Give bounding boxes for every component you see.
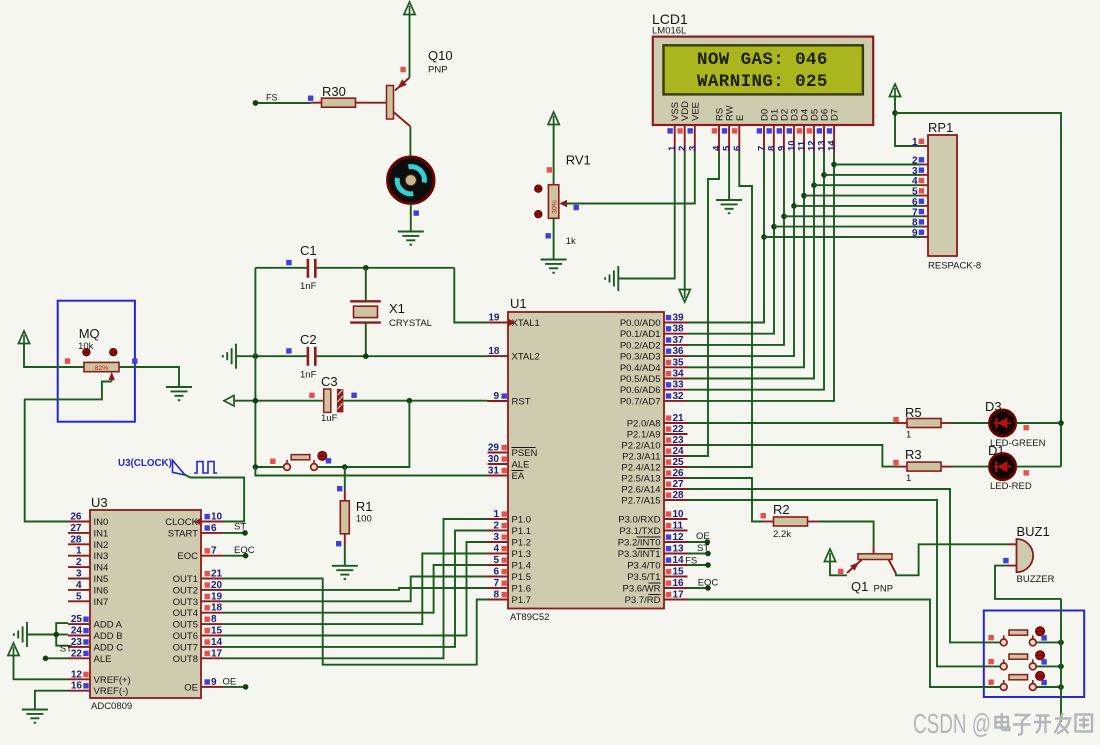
svg-text:OUT1: OUT1 — [173, 574, 198, 585]
svg-text:2: 2 — [493, 521, 499, 532]
svg-text:NOW GAS: 046: NOW GAS: 046 — [697, 50, 828, 70]
node D6/RP1 junction — [821, 172, 827, 178]
U1 pin 29 PSEN — [488, 452, 509, 454]
svg-text:1nF: 1nF — [300, 370, 317, 381]
svg-text:OE: OE — [696, 531, 710, 542]
wire +V rail to LED column — [895, 113, 1061, 467]
LCD1 screen — [664, 45, 863, 94]
wire U1 P2.7 to button 2 — [688, 500, 1001, 666]
svg-text:6: 6 — [732, 146, 743, 151]
wire — [119, 367, 179, 387]
wire Q1 collector to buzzer — [896, 544, 1008, 575]
node button 2 rail junction — [1058, 664, 1064, 670]
wire C3 to RST — [343, 400, 487, 402]
push button 2 in box — [1000, 651, 1044, 670]
node RP1 rail junction — [892, 110, 898, 116]
wire U1 P3.7 to button 3 — [688, 600, 1001, 688]
wire R1 to ground — [344, 545, 346, 566]
node button row left junction — [253, 464, 259, 470]
wire +V to MQ pot left — [24, 344, 84, 367]
svg-text:16: 16 — [673, 578, 685, 589]
svg-text:ADD B: ADD B — [94, 631, 123, 642]
svg-text:14: 14 — [827, 140, 838, 151]
svg-text:D3: D3 — [985, 399, 1002, 414]
svg-text:D7: D7 — [830, 109, 841, 121]
U1 pin 11 P3.1/TXD — [664, 530, 688, 532]
node FS — [705, 562, 711, 568]
svg-text:15: 15 — [673, 567, 685, 578]
svg-text:P1.4: P1.4 — [512, 561, 532, 572]
resistor pack RP1 RESPACK-8 body — [928, 135, 957, 256]
ground below R1 — [332, 566, 358, 579]
wire ADD B stub — [56, 634, 68, 636]
MQ sensor enclosure (blue box) — [58, 301, 135, 422]
svg-text:EOC: EOC — [177, 551, 198, 562]
U3 pin 6 START — [201, 532, 223, 534]
U1 pin 17 P3.7/RD — [664, 599, 688, 601]
wire X1 top — [365, 268, 367, 302]
wire motor to ground — [410, 204, 412, 232]
svg-text:9: 9 — [493, 391, 499, 402]
svg-text:IN3: IN3 — [94, 551, 109, 562]
svg-text:OUT4: OUT4 — [173, 608, 198, 619]
svg-text:25: 25 — [71, 614, 83, 625]
op-amp U1 (AT89C52 microcontroller body) — [508, 312, 664, 609]
LED D3 (green) — [989, 410, 1015, 436]
wire LCD VDD down — [684, 152, 686, 289]
wire OUT3-P1.5 — [223, 577, 488, 602]
svg-text:OUT7: OUT7 — [173, 642, 198, 653]
wire LCD D3 to U1 P0.3 — [688, 152, 795, 356]
svg-text:OUT2: OUT2 — [173, 585, 198, 596]
svg-text:LM016L: LM016L — [652, 26, 686, 37]
svg-text:PNP: PNP — [874, 584, 894, 595]
transistor Q1 (PNP) — [847, 546, 896, 574]
U1 pin 7 P1.6 — [488, 587, 509, 589]
wire D4 to RP1 — [804, 195, 921, 197]
wire button 1 to rail — [1036, 641, 1061, 643]
power arrow below LCD VDD — [679, 290, 690, 303]
U3 pin 25 ADD A — [68, 623, 90, 625]
capacitor C2 — [308, 347, 315, 366]
wire LCD VSS to ground — [618, 152, 674, 279]
svg-text:OE: OE — [223, 677, 237, 688]
svg-text:XTAL2: XTAL2 — [512, 352, 540, 363]
RP1 pin 8 — [921, 226, 928, 228]
svg-text:19: 19 — [488, 313, 500, 324]
U1 pin 30 ALE — [488, 463, 509, 465]
potentiometer RV1 — [535, 185, 559, 219]
node button 1 rail junction — [1058, 640, 1064, 646]
buzzer BUZ1 — [1008, 539, 1033, 572]
U3 pin 14 OUT7 — [201, 646, 223, 648]
U3 pin 19 OUT3 — [201, 600, 223, 602]
RP1 pin 3 — [921, 174, 928, 176]
svg-text:22: 22 — [71, 648, 83, 659]
LCD1 pin 2 VDD — [684, 125, 686, 152]
wire P3.3 stub ST — [688, 553, 709, 555]
svg-text:C3: C3 — [321, 374, 338, 389]
U3 pin 8 OUT5 — [201, 623, 223, 625]
svg-text:32: 32 — [673, 391, 685, 402]
svg-text:CLOCK: CLOCK — [165, 517, 198, 528]
svg-text:ADD A: ADD A — [94, 620, 123, 631]
RP1 pin 7 — [921, 215, 928, 217]
wire — [565, 152, 695, 204]
node FS (left) — [253, 100, 259, 106]
power +V — [548, 112, 559, 125]
U1 pin 27 P2.6/A14 — [664, 488, 688, 490]
wire ALE stub — [46, 657, 69, 659]
svg-text:U1: U1 — [510, 296, 527, 311]
svg-text:11: 11 — [673, 521, 684, 532]
U1 pin 2 P1.1 — [488, 530, 509, 532]
svg-text:31: 31 — [488, 466, 500, 477]
svg-text:P3.0/RXD: P3.0/RXD — [618, 515, 660, 526]
svg-text:1: 1 — [906, 430, 911, 441]
U1 pin 1 P1.0 — [488, 518, 509, 520]
node D1/RP1 junction — [771, 224, 777, 230]
svg-text:BUZ1: BUZ1 — [1017, 524, 1050, 539]
U3 pin 18 OUT4 — [201, 612, 223, 614]
wire U1 P2.0 to R5 — [688, 422, 897, 424]
U1 pin 6 P1.5 — [488, 576, 509, 578]
LCD1 LM016L display body — [653, 37, 873, 125]
svg-text:BUZZER: BUZZER — [1017, 574, 1055, 585]
svg-text:CRYSTAL: CRYSTAL — [389, 318, 432, 329]
wire — [1060, 599, 1062, 722]
svg-text:38: 38 — [673, 324, 685, 335]
wire D5 to RP1 — [814, 184, 921, 186]
wire arrow to C3 — [234, 400, 323, 402]
wire ground to C2 — [236, 355, 307, 357]
svg-text:21: 21 — [211, 569, 223, 580]
svg-text:17: 17 — [211, 648, 223, 659]
wire D2 to RP1 — [784, 215, 921, 217]
U1 pin 16 P3.6/WR — [664, 587, 688, 589]
RP1 pin 2 — [921, 164, 928, 166]
node OE — [705, 539, 711, 545]
U1 pin 25 P2.4/A12 — [664, 466, 688, 468]
svg-text:3: 3 — [687, 146, 698, 151]
wire D6 to RP1 — [824, 174, 921, 176]
svg-text:P3.5/T1: P3.5/T1 — [627, 572, 660, 583]
svg-text:24: 24 — [673, 446, 685, 457]
resistor — [311, 98, 367, 107]
wire P3.2 stub OE — [688, 541, 708, 543]
wire VREF+ to power — [14, 656, 69, 679]
svg-text:P0.3/AD3: P0.3/AD3 — [620, 352, 661, 363]
node X1 bottom junction — [363, 353, 369, 359]
U1 pin 12 P3.2/INT0 — [664, 541, 688, 543]
U3 pin 4 IN6 — [68, 589, 90, 591]
wire D3 to rail — [1016, 422, 1061, 424]
ground — [14, 622, 27, 647]
wire EOC stub — [223, 555, 246, 557]
svg-text:1: 1 — [76, 546, 82, 557]
node RST junction — [407, 398, 413, 404]
button enclosure (blue box) — [984, 611, 1084, 698]
svg-text:R30: R30 — [322, 84, 346, 99]
wire clock to U3 CLOCK pin — [185, 475, 245, 522]
svg-text:26: 26 — [673, 468, 685, 479]
U1 pin 21 P2.0/A8 — [664, 422, 688, 424]
node ADD bracket junction — [53, 632, 59, 638]
node D7/RP1 junction — [831, 162, 837, 168]
wire ground to ADD B — [27, 634, 56, 636]
svg-text:P0.6/AD6: P0.6/AD6 — [620, 385, 661, 396]
ground left of C2 — [223, 344, 236, 369]
U1 pin 19 XTAL1 — [488, 322, 509, 324]
svg-text:LED-RED: LED-RED — [990, 481, 1032, 492]
svg-text:P0.4/AD4: P0.4/AD4 — [620, 363, 661, 374]
resistor R1 (100, vertical) — [340, 490, 349, 545]
wire D1 to RP1 — [774, 226, 921, 228]
svg-text:1nF: 1nF — [300, 281, 317, 292]
svg-text:C2: C2 — [300, 332, 317, 347]
node D5/RP1 junction — [811, 182, 817, 188]
node button 3 rail junction — [1058, 684, 1064, 690]
svg-text:13: 13 — [673, 544, 685, 555]
svg-text:EOC: EOC — [234, 545, 255, 556]
wire LCD D7 to U1 P0.7 — [688, 152, 835, 401]
net arrow (left) on RST row — [224, 395, 234, 406]
wire OUT4-P1.4 — [223, 565, 488, 613]
svg-text:P2.1/A9: P2.1/A9 — [627, 430, 661, 441]
U3 pin 24 ADD B — [68, 635, 90, 637]
U3 pin 3 IN5 — [68, 578, 90, 580]
node ST — [705, 551, 711, 557]
svg-text:P3.6/WR: P3.6/WR — [622, 584, 660, 595]
U3 pin 23 ADD C — [68, 646, 90, 648]
svg-text:P1.7: P1.7 — [512, 595, 532, 606]
svg-text:18: 18 — [488, 346, 500, 357]
svg-text:ST: ST — [697, 543, 709, 554]
wire OUT5-P1.3 — [223, 554, 488, 625]
wire LCD E to U1 P2.4 — [688, 152, 753, 467]
svg-text:6: 6 — [493, 567, 499, 578]
U1 pin 34 P0.5/AD5 — [664, 378, 688, 380]
svg-text:24: 24 — [71, 626, 83, 637]
svg-text:P3.2/INT0: P3.2/INT0 — [618, 538, 661, 549]
wire LCD D4 to U1 P0.4 — [688, 152, 805, 367]
node C3 row junction — [253, 398, 259, 404]
node D3/RP1 junction — [791, 203, 797, 209]
capacitor C3 (1uF polarized) — [324, 389, 344, 412]
LCD1 pin 1 VSS — [674, 125, 676, 152]
U1 pin 8 P1.7 — [488, 599, 509, 601]
svg-text:R2: R2 — [773, 502, 790, 517]
wire R5 to D3 — [952, 422, 989, 424]
wire OUT2-P1.6 — [223, 588, 488, 590]
LCD1 pin 11 D4 — [803, 125, 805, 152]
U1 pin 13 P3.3/INT1 — [664, 553, 688, 555]
U1 pin 37 P0.2/AD2 — [664, 344, 688, 346]
svg-text:IN4: IN4 — [94, 563, 109, 574]
push button 1 in box — [1000, 627, 1044, 646]
U1 pin 35 P0.4/AD4 — [664, 366, 688, 368]
svg-text:WARNING: 025: WARNING: 025 — [697, 72, 828, 92]
node D4/RP1 junction — [801, 193, 807, 199]
power +V — [18, 331, 29, 344]
svg-text:5: 5 — [76, 591, 82, 602]
RP1 pin 4 — [921, 184, 928, 186]
wire OUT8-P1.0 — [223, 519, 488, 658]
resistor — [896, 462, 952, 471]
wire R2 to Q1 base — [819, 522, 874, 547]
U3 pin 10 CLOCK — [201, 521, 223, 523]
wire OUT6-P1.2 — [223, 542, 488, 636]
wire X1 bottom — [365, 323, 367, 357]
LCD1 pin 3 VEE — [694, 125, 696, 152]
svg-text:X1: X1 — [389, 301, 405, 316]
svg-text:P1.0: P1.0 — [512, 515, 532, 526]
RV1 wiper arrow — [559, 200, 567, 208]
svg-text:P2.7/A15: P2.7/A15 — [621, 496, 660, 507]
svg-text:12: 12 — [71, 669, 83, 680]
svg-text:1k: 1k — [566, 236, 576, 247]
U1 pin 39 P0.0/AD0 — [664, 322, 688, 324]
ground below RV1 — [541, 260, 567, 273]
svg-text:17: 17 — [673, 590, 685, 601]
svg-text:R1: R1 — [356, 499, 373, 514]
svg-text:25: 25 — [673, 457, 685, 468]
svg-text:26: 26 — [70, 512, 82, 523]
svg-text:18: 18 — [211, 603, 223, 614]
U1 pin 5 P1.4 — [488, 564, 509, 566]
LCD1 pin 7 D0 — [763, 125, 765, 152]
U1 pin 38 P0.1/AD1 — [664, 333, 688, 335]
svg-text:RP1: RP1 — [928, 120, 953, 135]
svg-text:U3: U3 — [91, 495, 108, 510]
U1 pin 18 XTAL2 — [488, 355, 509, 357]
svg-text:12: 12 — [673, 532, 685, 543]
svg-text:7: 7 — [211, 546, 217, 557]
svg-text:7: 7 — [493, 578, 499, 589]
wire U1 P2.6 to button 1 — [688, 489, 1001, 642]
svg-text:U3(CLOCK): U3(CLOCK) — [118, 458, 172, 469]
svg-text:28: 28 — [70, 534, 82, 545]
svg-text:27: 27 — [673, 479, 685, 490]
RP1 pin 5 — [921, 195, 928, 197]
svg-text:34: 34 — [673, 369, 685, 380]
wire START stub — [223, 532, 245, 534]
svg-text:10: 10 — [211, 512, 223, 523]
U3 pin 22 ALE — [68, 657, 90, 659]
svg-text:36: 36 — [673, 346, 685, 357]
svg-text:33: 33 — [673, 380, 685, 391]
svg-text:30: 30 — [488, 454, 500, 465]
svg-text:IN5: IN5 — [94, 574, 109, 585]
svg-text:20: 20 — [211, 580, 223, 591]
svg-text:23: 23 — [673, 435, 685, 446]
svg-text:RV1: RV1 — [566, 153, 591, 168]
svg-text:ALE: ALE — [512, 460, 530, 471]
svg-text:ADC0809: ADC0809 — [91, 701, 132, 712]
svg-text:5: 5 — [493, 555, 499, 566]
wire to R1 — [344, 467, 346, 490]
node R1 top junction — [342, 464, 348, 470]
ground for LCD VSS — [605, 266, 618, 291]
ground right of MQ — [166, 387, 192, 400]
U1 pin 24 P2.3/A11 — [664, 455, 688, 457]
wire U1 P2.5 to R2 — [688, 478, 764, 522]
MQ wiper arrow — [109, 372, 115, 380]
U3 pin 27 IN1 — [68, 532, 90, 534]
svg-text:IN2: IN2 — [94, 540, 109, 551]
wire LCD D1 to U1 P0.1 — [688, 152, 775, 334]
svg-text:14: 14 — [673, 555, 685, 566]
wire +V to Q1 emitter — [830, 562, 847, 575]
svg-text:P3.1/TXD: P3.1/TXD — [619, 526, 660, 537]
wire +V to RV1 — [553, 125, 555, 185]
node EOC — [705, 585, 711, 591]
svg-text:P3.3/INT1: P3.3/INT1 — [618, 549, 661, 560]
push button 3 in box — [1000, 672, 1044, 691]
op-amp U3 (ADC0809 body) — [90, 510, 201, 698]
svg-text:P1.6: P1.6 — [512, 584, 532, 595]
svg-text:21: 21 — [673, 413, 685, 424]
svg-text:3: 3 — [493, 532, 499, 543]
U1 pin 4 P1.3 — [488, 553, 509, 555]
U3 CLOCK input marker — [195, 518, 202, 526]
wire C2 to XTAL2 — [317, 355, 488, 357]
LCD1 pin 12 D5 — [813, 125, 815, 152]
U3 pin 12 VREF(+) — [68, 678, 90, 680]
wire +V to RP1 pin1 — [895, 97, 921, 146]
wire to XTAL1 — [454, 268, 487, 323]
svg-text:P3.4/T0: P3.4/T0 — [627, 561, 660, 572]
wire LCD D2 to U1 P0.2 — [688, 152, 785, 345]
power +V — [824, 549, 835, 562]
wire R30 to Q10 base — [367, 102, 387, 104]
svg-text:C1: C1 — [300, 243, 317, 258]
wire FS to R30 — [258, 102, 311, 104]
svg-text:27: 27 — [70, 523, 82, 534]
svg-text:9: 9 — [211, 677, 217, 688]
svg-text:P0.0/AD0: P0.0/AD0 — [620, 318, 661, 329]
U1 pin 33 P0.6/AD6 — [664, 389, 688, 391]
svg-text:35: 35 — [673, 357, 685, 368]
svg-text:P2.5/A13: P2.5/A13 — [621, 474, 660, 485]
svg-text:29: 29 — [488, 443, 500, 454]
svg-text:P2.4/A12: P2.4/A12 — [621, 463, 660, 474]
wire U1 P2.2 to R3 — [688, 445, 897, 467]
ground below VREF- — [22, 710, 48, 723]
svg-text:15: 15 — [211, 626, 223, 637]
power +V — [404, 2, 415, 15]
wire LCD D6 to U1 P0.6 — [688, 152, 825, 390]
svg-text:4: 4 — [493, 544, 499, 555]
svg-text:RST: RST — [512, 397, 531, 408]
resistor — [896, 419, 952, 428]
node D0/RP1 junction — [761, 234, 767, 240]
ground below LCD RW — [716, 200, 742, 213]
wire D7 to RP1 — [834, 164, 921, 166]
power +V — [889, 84, 900, 97]
svg-text:82%: 82% — [95, 365, 109, 372]
svg-text:VREF(-): VREF(-) — [94, 686, 129, 697]
svg-text:PSEN: PSEN — [512, 448, 538, 459]
LCD1 pin 10 D3 — [793, 125, 795, 152]
U1 pin 9 RST — [488, 400, 509, 402]
transistor Q10 — [387, 78, 411, 127]
RP1 pin 6 — [921, 205, 928, 207]
svg-text:4: 4 — [76, 580, 82, 591]
crystal X1 — [350, 301, 381, 322]
svg-text:2: 2 — [76, 557, 82, 568]
svg-text:1uF: 1uF — [321, 413, 338, 424]
